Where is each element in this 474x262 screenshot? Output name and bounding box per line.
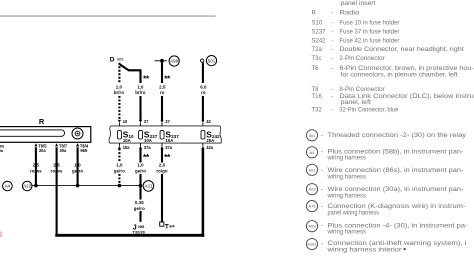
svg-text:-: - bbox=[332, 21, 334, 27]
svg-text:Plus connection (58b), in inst: Plus connection (58b), in instrument pan… bbox=[328, 149, 464, 155]
svg-text:wiring harness: wiring harness bbox=[327, 193, 366, 199]
svg-text:T8: T8 bbox=[312, 87, 320, 93]
svg-text:-: - bbox=[321, 168, 323, 174]
svg-text:Wire connection (86s), in inst: Wire connection (86s), in instrument pan… bbox=[328, 168, 464, 174]
svg-text:8-Pin Connector: 8-Pin Connector bbox=[339, 87, 384, 93]
svg-text:ro/ws: ro/ws bbox=[51, 169, 63, 174]
svg-text:ro: ro bbox=[160, 90, 165, 95]
svg-text:30a: 30a bbox=[39, 148, 47, 153]
svg-text:T32/30: T32/30 bbox=[132, 230, 145, 235]
svg-text:Double Connector, near headlig: Double Connector, near headlight, right bbox=[339, 47, 464, 53]
svg-text:R: R bbox=[312, 10, 317, 16]
svg-text:0b: 0b bbox=[0, 149, 4, 153]
svg-text:A4: A4 bbox=[310, 150, 316, 155]
svg-text:10: 10 bbox=[123, 119, 128, 124]
svg-text:Plus connection -4- (30), in i: Plus connection -4- (30), in instrument … bbox=[328, 223, 468, 229]
svg-text:wiring harness: wiring harness bbox=[327, 156, 366, 162]
svg-text:T3c: T3c bbox=[312, 56, 322, 62]
svg-text:1,0: 1,0 bbox=[116, 84, 123, 89]
svg-text:-: - bbox=[321, 149, 323, 155]
svg-text:2,5: 2,5 bbox=[53, 162, 60, 167]
svg-text:A161: A161 bbox=[307, 242, 317, 247]
svg-text:ge/ro: ge/ro bbox=[134, 206, 145, 211]
svg-text:wiring harness: wiring harness bbox=[327, 174, 366, 180]
svg-text:●: ● bbox=[403, 247, 406, 253]
svg-text:285: 285 bbox=[138, 224, 145, 229]
svg-text:30a: 30a bbox=[60, 148, 68, 153]
svg-text:**: ** bbox=[143, 152, 150, 162]
svg-text:-: - bbox=[332, 39, 334, 45]
svg-text:15A: 15A bbox=[166, 138, 174, 143]
svg-text:37: 37 bbox=[144, 119, 149, 124]
svg-text:-: - bbox=[332, 66, 334, 72]
svg-text:42: 42 bbox=[206, 119, 211, 124]
svg-text:T16: T16 bbox=[312, 94, 323, 100]
svg-text:**: ** bbox=[143, 73, 150, 83]
svg-text:2-Pin Connector: 2-Pin Connector bbox=[339, 56, 384, 62]
svg-text:T6: T6 bbox=[312, 66, 320, 72]
svg-text:Fuse 10 in fuse holder: Fuse 10 in fuse holder bbox=[339, 21, 399, 27]
svg-text:37a: 37a bbox=[165, 145, 173, 150]
svg-text:Wire connection (30a), in inst: Wire connection (30a), in instrument pan… bbox=[328, 187, 464, 193]
svg-text:-: - bbox=[321, 187, 323, 193]
svg-text:A76: A76 bbox=[308, 204, 316, 209]
svg-text:2,5: 2,5 bbox=[159, 84, 166, 89]
svg-text:A99: A99 bbox=[308, 224, 316, 229]
svg-text:panel, left: panel, left bbox=[341, 100, 372, 106]
svg-text:501: 501 bbox=[309, 133, 316, 138]
svg-text:T32: T32 bbox=[312, 108, 323, 114]
svg-text:1,0: 1,0 bbox=[137, 84, 144, 89]
svg-text:A21: A21 bbox=[144, 184, 153, 189]
svg-text:6-Pin Connector, brown, in pro: 6-Pin Connector, brown, in protective ho… bbox=[339, 66, 473, 72]
svg-text:-: - bbox=[332, 87, 334, 93]
svg-text:6,0: 6,0 bbox=[200, 84, 207, 89]
svg-text:-: - bbox=[332, 108, 334, 114]
svg-text:-: - bbox=[321, 204, 323, 210]
svg-text:1,0: 1,0 bbox=[137, 162, 144, 167]
svg-text:-: - bbox=[332, 56, 334, 62]
svg-text:ge/ro: ge/ro bbox=[72, 169, 83, 174]
svg-text:wiring harness interior: wiring harness interior bbox=[326, 247, 401, 253]
svg-text:10a: 10a bbox=[123, 145, 131, 150]
svg-text:for connectors, in plenum cham: for connectors, in plenum chamber, left bbox=[341, 72, 458, 78]
svg-text:965: 965 bbox=[117, 57, 124, 62]
svg-text:ro: ro bbox=[201, 90, 206, 95]
svg-text:A4: A4 bbox=[5, 184, 11, 189]
svg-text:2,5: 2,5 bbox=[33, 162, 40, 167]
svg-text:br/ro: br/ro bbox=[135, 90, 146, 95]
svg-text:T2a: T2a bbox=[312, 47, 323, 53]
svg-text:-: - bbox=[321, 223, 323, 229]
svg-text:panel insert: panel insert bbox=[341, 1, 376, 7]
svg-text:A23: A23 bbox=[308, 187, 316, 192]
svg-text:**: ** bbox=[164, 73, 171, 83]
svg-text:Fuse 42 in fuse holder: Fuse 42 in fuse holder bbox=[339, 39, 399, 45]
svg-text:1,0: 1,0 bbox=[116, 162, 123, 167]
svg-text:37a: 37a bbox=[144, 145, 152, 150]
svg-text:8/6: 8/6 bbox=[0, 144, 4, 148]
svg-text:Radio: Radio bbox=[339, 10, 360, 16]
svg-text:10A: 10A bbox=[123, 138, 131, 143]
svg-text:10A: 10A bbox=[144, 138, 152, 143]
svg-text:Connection (K-diagnosis wire): Connection (K-diagnosis wire) in instrum… bbox=[328, 204, 466, 210]
svg-text:32-Pin Connector, blue: 32-Pin Connector, blue bbox=[339, 108, 399, 114]
svg-text:D: D bbox=[110, 56, 115, 63]
svg-text:2,5: 2,5 bbox=[159, 162, 166, 167]
svg-text:S242: S242 bbox=[312, 39, 327, 45]
svg-text:A23: A23 bbox=[23, 184, 32, 189]
svg-text:ge/ro: ge/ro bbox=[114, 169, 125, 174]
svg-text:1,0: 1,0 bbox=[74, 162, 81, 167]
svg-text:panel wiring harness: panel wiring harness bbox=[328, 210, 380, 216]
svg-text:-: - bbox=[332, 94, 334, 100]
svg-text:-: - bbox=[321, 241, 323, 247]
svg-text:Fuse 37 in fuse holder: Fuse 37 in fuse holder bbox=[339, 30, 399, 36]
svg-text:42a: 42a bbox=[206, 145, 214, 150]
svg-text:A21: A21 bbox=[308, 167, 316, 172]
svg-text:37: 37 bbox=[165, 119, 170, 124]
svg-text:25A: 25A bbox=[206, 138, 214, 143]
svg-text:ro/ws: ro/ws bbox=[30, 169, 42, 174]
svg-text:0,35: 0,35 bbox=[135, 200, 144, 205]
svg-text:Threaded connection -2- (30) o: Threaded connection -2- (30) on the rela… bbox=[328, 133, 467, 139]
svg-text:-: - bbox=[332, 30, 334, 36]
svg-text:br/ro: br/ro bbox=[114, 90, 125, 95]
svg-text:965: 965 bbox=[80, 148, 88, 153]
svg-text:ro/gn: ro/gn bbox=[156, 169, 168, 174]
svg-text:**: ** bbox=[164, 152, 171, 162]
svg-text:501: 501 bbox=[208, 58, 216, 63]
svg-text:-: - bbox=[332, 10, 334, 16]
svg-text:wiring harness: wiring harness bbox=[327, 230, 366, 236]
svg-text:A99: A99 bbox=[170, 59, 179, 64]
svg-text:-: - bbox=[321, 133, 323, 139]
svg-text:Connection (anti-theft warning: Connection (anti-theft warning system), … bbox=[328, 241, 467, 247]
svg-text:-: - bbox=[332, 47, 334, 53]
svg-text:S237: S237 bbox=[312, 30, 327, 36]
svg-text:6/4: 6/4 bbox=[169, 224, 175, 229]
svg-text:ge/ro: ge/ro bbox=[135, 169, 146, 174]
svg-text:S10: S10 bbox=[312, 21, 323, 27]
svg-text:R: R bbox=[39, 117, 45, 126]
